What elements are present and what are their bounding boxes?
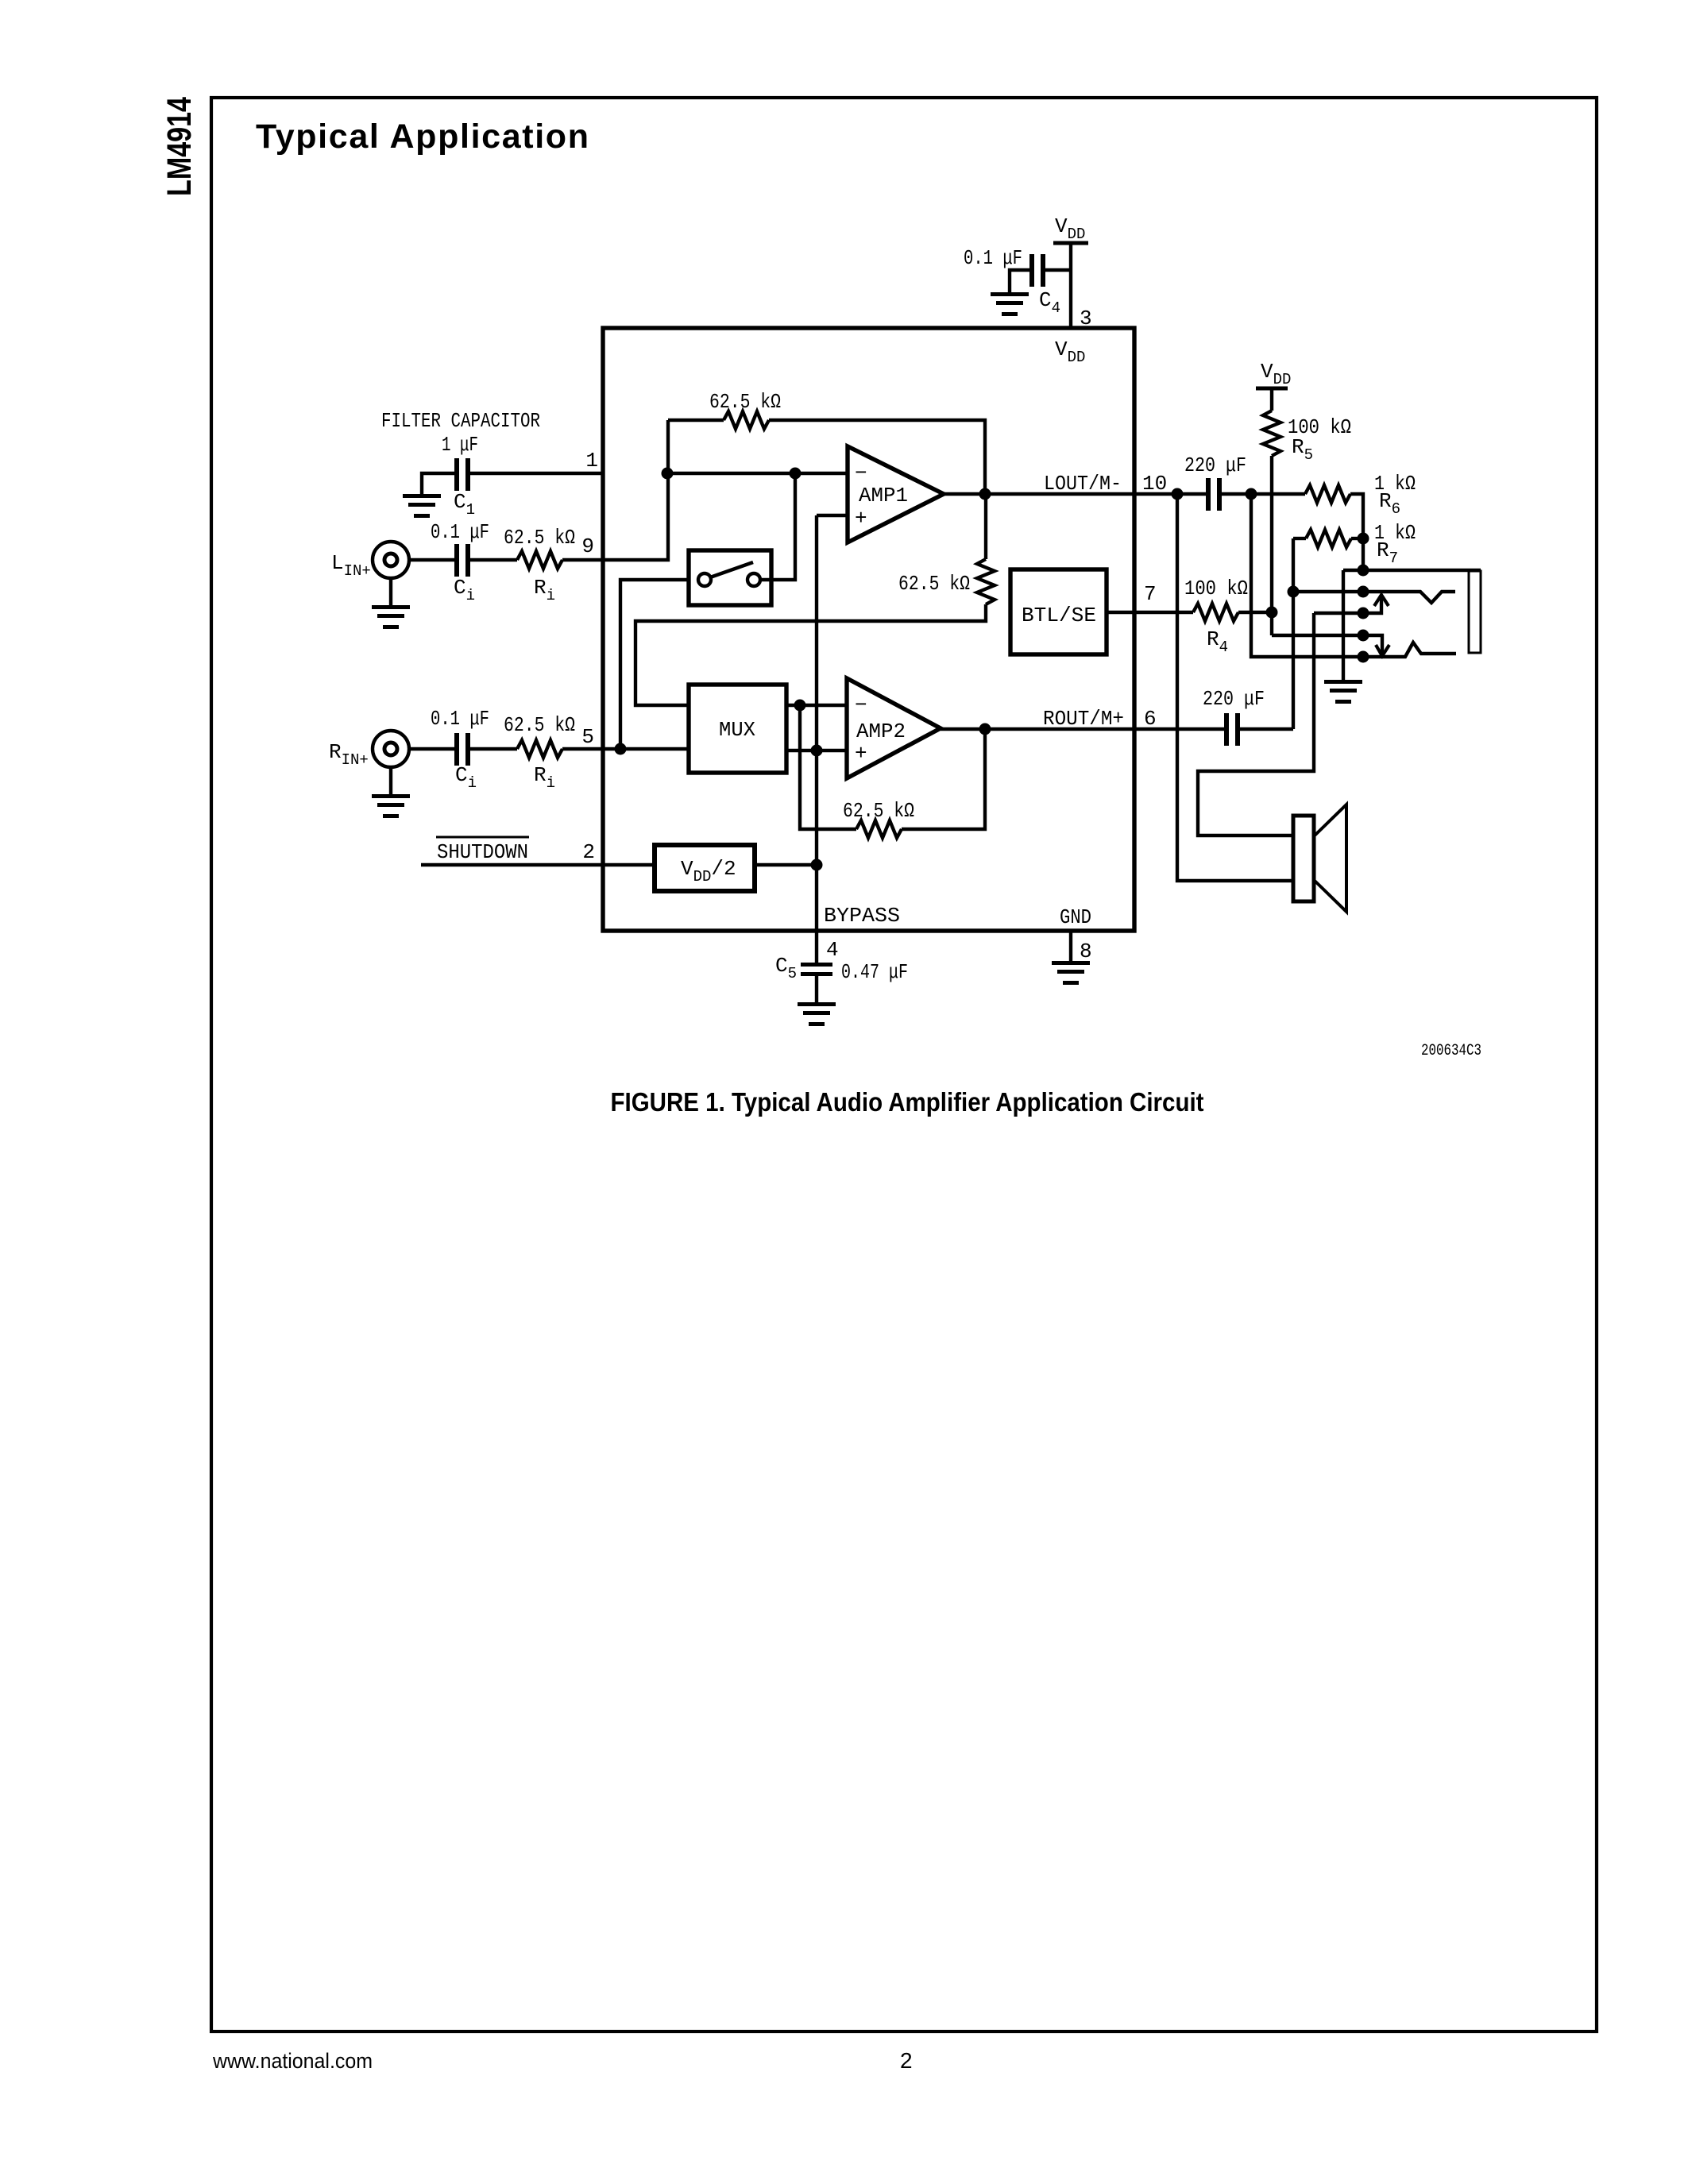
svg-text:9: 9	[581, 534, 594, 558]
svg-text:AMP1: AMP1	[859, 484, 908, 507]
svg-text:10: 10	[1142, 472, 1167, 496]
svg-text:Typical Application: Typical Application	[256, 118, 589, 156]
svg-text:0.47 μF: 0.47 μF	[841, 960, 908, 984]
svg-text:BTL/SE: BTL/SE	[1022, 604, 1096, 627]
svg-text:RIN+: RIN+	[329, 740, 369, 769]
svg-text:8: 8	[1080, 940, 1092, 963]
svg-text:220 μF: 220 μF	[1184, 453, 1246, 477]
svg-text:7: 7	[1144, 582, 1157, 606]
svg-text:62.5 kΩ: 62.5 kΩ	[504, 713, 575, 737]
svg-text:VDD: VDD	[1261, 360, 1291, 388]
svg-text:1 μF: 1 μF	[442, 433, 478, 457]
svg-text:62.5 kΩ: 62.5 kΩ	[709, 390, 781, 414]
svg-text:0.1 μF: 0.1 μF	[964, 246, 1022, 270]
svg-text:+: +	[855, 507, 867, 531]
svg-text:R4: R4	[1207, 627, 1228, 656]
svg-text:4: 4	[826, 938, 839, 962]
svg-text:2: 2	[900, 2048, 913, 2073]
svg-text:220 μF: 220 μF	[1203, 687, 1265, 711]
svg-text:3: 3	[1080, 307, 1092, 330]
svg-text:BYPASS: BYPASS	[824, 904, 900, 928]
svg-text:C5: C5	[775, 954, 797, 982]
svg-text:GND: GND	[1060, 905, 1091, 929]
svg-text:SHUTDOWN: SHUTDOWN	[437, 840, 528, 864]
svg-text:2: 2	[582, 840, 595, 864]
svg-text:ROUT/M+: ROUT/M+	[1043, 707, 1124, 731]
svg-text:Ci: Ci	[455, 763, 477, 792]
svg-text:LM4914: LM4914	[160, 97, 199, 196]
svg-text:MUX: MUX	[719, 718, 755, 742]
svg-text:LOUT/M-: LOUT/M-	[1044, 472, 1122, 496]
svg-text:62.5 kΩ: 62.5 kΩ	[843, 799, 914, 823]
svg-text:LIN+: LIN+	[331, 551, 371, 580]
svg-text:Ri: Ri	[534, 576, 555, 604]
svg-text:100 kΩ: 100 kΩ	[1184, 577, 1248, 600]
svg-text:FILTER CAPACITOR: FILTER CAPACITOR	[381, 409, 540, 433]
svg-text:−: −	[855, 461, 867, 485]
svg-text:0.1 μF: 0.1 μF	[431, 707, 489, 731]
svg-text:6: 6	[1144, 707, 1157, 731]
svg-text:VDD: VDD	[1055, 214, 1085, 243]
svg-text:1: 1	[585, 449, 598, 473]
svg-text:+: +	[855, 742, 867, 766]
svg-text:C4: C4	[1039, 288, 1060, 317]
svg-text:62.5 kΩ: 62.5 kΩ	[898, 572, 970, 596]
svg-text:www.national.com: www.national.com	[212, 2049, 373, 2073]
svg-text:VDD/2: VDD/2	[681, 857, 736, 886]
svg-text:5: 5	[581, 725, 594, 749]
svg-text:200634C3: 200634C3	[1421, 1042, 1481, 1060]
svg-text:FIGURE 1. Typical Audio Amplif: FIGURE 1. Typical Audio Amplifier Applic…	[611, 1087, 1204, 1117]
svg-text:62.5 kΩ: 62.5 kΩ	[504, 526, 575, 550]
svg-text:−: −	[855, 693, 867, 717]
svg-text:VDD: VDD	[1055, 338, 1085, 366]
svg-text:Ri: Ri	[534, 763, 555, 792]
svg-text:0.1 μF: 0.1 μF	[431, 520, 489, 544]
svg-text:R5: R5	[1292, 435, 1313, 464]
svg-text:C1: C1	[454, 490, 475, 519]
svg-text:Ci: Ci	[454, 576, 475, 604]
svg-text:AMP2: AMP2	[856, 720, 906, 743]
